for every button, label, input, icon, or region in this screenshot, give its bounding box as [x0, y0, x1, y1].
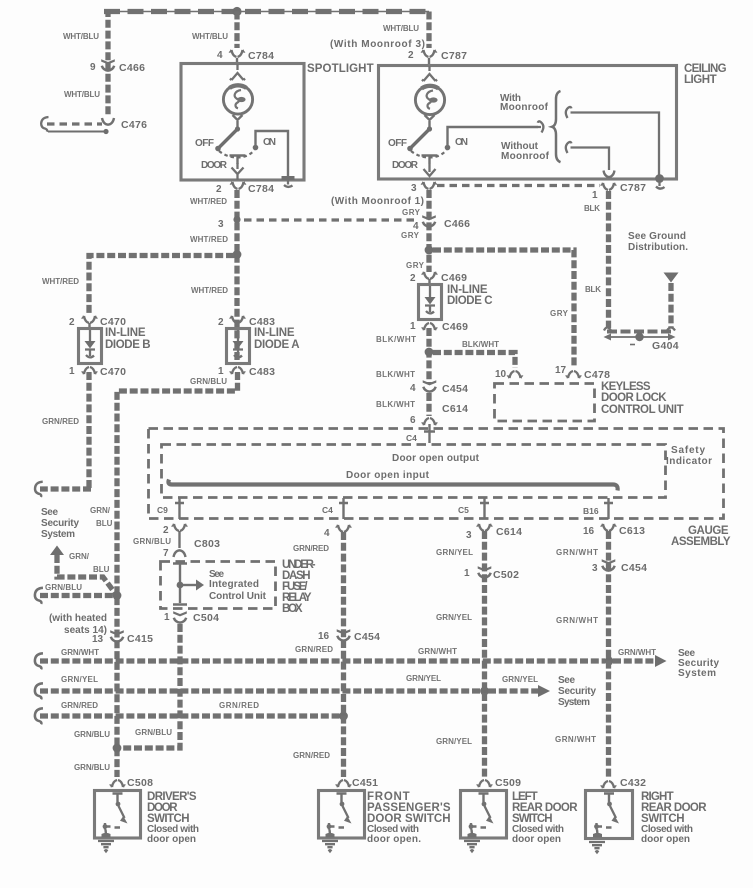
node: junction dot to diode B branch: [233, 250, 242, 259]
svg-text:GRN/RED: GRN/RED: [295, 645, 333, 654]
svg-text:DOOR: DOOR: [201, 160, 228, 171]
connector C787 pin 2: [421, 50, 436, 57]
svg-text:1: 1: [464, 568, 470, 579]
svg-text:Moonroof: Moonroof: [501, 151, 550, 162]
svg-text:WHT/BLU: WHT/BLU: [63, 32, 99, 41]
svg-text:C509: C509: [495, 777, 521, 789]
svg-text:BLK/WHT: BLK/WHT: [376, 370, 415, 379]
svg-text:DIODE B: DIODE B: [105, 339, 151, 351]
svg-text:See Ground: See Ground: [628, 231, 686, 242]
svg-text:GRN/WHT: GRN/WHT: [556, 616, 598, 625]
connector C470 pin 1: [82, 367, 97, 374]
diode B symbol: [89, 330, 91, 341]
ground (driver's door switch): [98, 841, 114, 851]
svg-text:GRN/BLU: GRN/BLU: [135, 728, 172, 737]
wire WHT/BLU ceiling drop: [426, 12, 431, 49]
node: dot on box edge (with moonroof): [655, 174, 664, 183]
svg-text:2: 2: [163, 525, 169, 536]
wire from C504 down to GRN/BLU junction: [119, 624, 180, 748]
DOOR pin chevron exit: [232, 163, 244, 180]
diode C box: [419, 285, 442, 320]
wire: arrow to security system: [488, 688, 539, 693]
svg-text:9: 9: [90, 62, 96, 73]
svg-text:16: 16: [318, 631, 330, 642]
diode C symbol: [429, 286, 431, 297]
svg-text:GRN/BLU: GRN/BLU: [45, 583, 82, 592]
svg-text:ON: ON: [263, 137, 276, 148]
svg-text:GRN/YEL: GRN/YEL: [502, 675, 538, 684]
wire GRN/RED horizontal: [40, 713, 340, 718]
svg-text:GRN/BLU: GRN/BLU: [74, 730, 110, 739]
connector C504 pin 1: [173, 611, 187, 622]
svg-text:6: 6: [410, 415, 416, 426]
svg-text:BLU: BLU: [96, 519, 113, 528]
wire GRN/RED from diode B: [86, 372, 91, 489]
wire: thin stub into gauge assembly: [424, 424, 435, 443]
connector hook below edge: [656, 182, 665, 189]
svg-text:ON: ON: [455, 137, 468, 148]
svg-text:GRN/YEL: GRN/YEL: [436, 737, 472, 746]
svg-text:WHT/BLU: WHT/BLU: [383, 24, 419, 33]
switch common: [236, 121, 238, 127]
svg-text:1: 1: [69, 366, 75, 377]
pin entry chevron: [230, 64, 245, 80]
connector C415 pin 13: [110, 630, 124, 641]
connector C787 pin 1: [601, 183, 616, 190]
svg-text:GRN/BLU: GRN/BLU: [74, 763, 110, 772]
node: junction dot on top bus: [232, 7, 241, 16]
wire BLK from C787 pin 1: [606, 191, 611, 328]
svg-text:Security: Security: [558, 686, 596, 697]
svg-text:1: 1: [164, 612, 170, 623]
connector C784 pin 2: [230, 182, 245, 189]
connector C469 pin 2: [422, 272, 437, 279]
svg-text:System: System: [678, 668, 716, 679]
wire GRN/WHT down: [606, 531, 611, 777]
connector hook at left end of C476 stub: [41, 117, 48, 132]
node: junction dot on GRN/BLU: [113, 591, 122, 600]
wire: door open input bus: [168, 480, 617, 491]
svg-text:7: 7: [163, 548, 169, 559]
driver's door switch box: [95, 791, 141, 839]
svg-text:System: System: [558, 697, 590, 708]
svg-text:C504: C504: [193, 612, 219, 624]
svg-text:GRN/WHT: GRN/WHT: [418, 647, 457, 656]
wire BLK/WHT to C614: [426, 393, 431, 416]
svg-text:DOOR LOCK: DOOR LOCK: [601, 392, 667, 404]
connector C466 pin 9: [101, 59, 115, 70]
case ground symbol at box edge: [282, 176, 295, 180]
svg-text:GRN/WHT: GRN/WHT: [556, 548, 598, 557]
svg-text:C787: C787: [620, 182, 646, 194]
connector C454 pin 4: [423, 380, 437, 391]
connector C432: [601, 781, 616, 788]
ground (right rear door switch): [589, 842, 605, 852]
svg-text:Moonroof: Moonroof: [500, 102, 549, 113]
svg-text:4: 4: [217, 50, 223, 61]
svg-text:3: 3: [411, 183, 417, 194]
svg-text:C466: C466: [119, 62, 145, 74]
svg-text:C9: C9: [157, 505, 168, 515]
svg-text:2: 2: [218, 317, 224, 328]
svg-text:Door open output: Door open output: [392, 453, 480, 464]
svg-text:GRN/WHT: GRN/WHT: [61, 648, 99, 657]
wire from security arrow: [57, 555, 115, 593]
svg-text:C784: C784: [248, 50, 274, 62]
node: BLK/WHT junction dot: [425, 348, 434, 357]
svg-text:2: 2: [408, 50, 414, 61]
wire: dashed (With Moonroof 1) branch to C466: [244, 218, 419, 221]
wire GRN/WHT long horizontal: [40, 658, 605, 663]
svg-text:C466: C466: [444, 218, 470, 230]
svg-text:3: 3: [218, 219, 224, 230]
integrated control unit box: [161, 562, 276, 609]
svg-text:C454: C454: [621, 562, 647, 574]
connector C803 pins 2/7: [172, 524, 187, 531]
bulb (ceiling light): [415, 85, 444, 114]
svg-text:GRY: GRY: [401, 231, 420, 240]
ground (left rear door switch): [464, 841, 480, 851]
svg-text:BLK/WHT: BLK/WHT: [376, 400, 415, 409]
wire GRN/BLU from diode A down-left: [117, 372, 238, 777]
svg-text:C784: C784: [248, 183, 274, 195]
svg-text:C803: C803: [194, 538, 220, 550]
svg-text:BLU: BLU: [93, 565, 110, 574]
svg-text:B16: B16: [583, 506, 599, 516]
node 3 (C466 pin 3): [233, 216, 240, 223]
svg-text:GRN/WHT: GRN/WHT: [555, 735, 596, 744]
svg-text:IN-LINE: IN-LINE: [254, 327, 295, 339]
svg-text:ASSEMBLY: ASSEMBLY: [671, 536, 731, 548]
wire: dashed (With Moonroof 1) line to C787 pin1: [437, 184, 600, 187]
svg-text:door open.: door open.: [367, 834, 421, 845]
svg-text:BLK/WHT: BLK/WHT: [462, 340, 499, 349]
svg-text:C478: C478: [584, 369, 610, 381]
wire: BLK/WHT branch to C478 pin 10: [433, 353, 515, 369]
svg-text:2: 2: [69, 317, 75, 328]
pin C4 stub: [339, 498, 348, 519]
wire WHT/BLU left drop: [105, 9, 110, 117]
svg-text:C454: C454: [442, 383, 468, 395]
svg-text:C5: C5: [458, 505, 469, 515]
svg-text:IN-LINE: IN-LINE: [105, 327, 146, 339]
svg-text:C613: C613: [619, 525, 645, 537]
wire: thin line under C476 stub: [48, 131, 105, 133]
svg-text:C415: C415: [127, 633, 153, 645]
switch arm to OFF: [412, 130, 429, 147]
svg-text:BLK/WHT: BLK/WHT: [376, 335, 416, 344]
svg-text:GRN/YEL: GRN/YEL: [61, 675, 98, 684]
front passenger's door switch box: [319, 791, 365, 839]
svg-text:DOOR: DOOR: [392, 160, 419, 171]
wire: with-moonroof option: [571, 113, 660, 177]
connector C613 pin 16: [601, 524, 616, 531]
wire to G404: [668, 283, 673, 328]
connector C509: [477, 780, 492, 787]
svg-text:SPOTLIGHT: SPOTLIGHT: [307, 63, 374, 75]
connector C614 pin 6: [422, 418, 437, 425]
svg-text:OFF: OFF: [195, 138, 214, 149]
svg-text:Security: Security: [41, 518, 79, 529]
svg-text:2: 2: [216, 184, 222, 195]
left rear door switch box: [461, 791, 507, 839]
svg-text:GRN/RED: GRN/RED: [42, 417, 79, 426]
svg-text:GRN/: GRN/: [69, 552, 90, 561]
node: junction dot on wire 1: [605, 657, 614, 666]
svg-text:WHT/RED: WHT/RED: [190, 235, 228, 244]
ground (front passenger's door switch): [322, 841, 338, 851]
svg-text:GRN/YEL: GRN/YEL: [406, 674, 441, 683]
wire: branch left to diode B: [89, 256, 234, 314]
svg-text:GRN/YEL: GRN/YEL: [436, 613, 472, 622]
wire from ON to case ground: [256, 131, 289, 176]
svg-text:1: 1: [592, 190, 598, 201]
switch common: [428, 121, 430, 127]
diode B box: [79, 329, 102, 364]
node: junction dot on wire 2: [480, 687, 489, 696]
svg-text:C4: C4: [322, 505, 333, 515]
svg-text:C614: C614: [442, 403, 468, 415]
node: junction dot (C504 branch): [113, 744, 122, 753]
svg-text:door open: door open: [512, 834, 561, 845]
svg-text:1: 1: [218, 366, 224, 377]
svg-text:WHT/BLU: WHT/BLU: [64, 90, 100, 99]
node: junction dot terminating wire 3: [339, 712, 348, 721]
connector C483 pin 1: [230, 367, 245, 374]
wire GRN/RED down: [341, 532, 346, 777]
pin C9 stub: [175, 498, 184, 519]
svg-text:17: 17: [555, 365, 567, 376]
hook at left end: [35, 482, 43, 497]
svg-text:4: 4: [410, 383, 416, 394]
svg-text:GRY: GRY: [402, 208, 421, 217]
connector C614 pin 3: [477, 524, 492, 531]
wire WHT/RED below spotlight: [234, 190, 239, 360]
svg-text:C451: C451: [352, 777, 378, 789]
svg-text:1: 1: [410, 321, 416, 332]
connector C478 pin 17: [566, 371, 581, 378]
svg-text:GRN/RED: GRN/RED: [293, 751, 330, 760]
svg-text:WHT/RED: WHT/RED: [191, 286, 228, 295]
svg-text:GRN/WHT: GRN/WHT: [618, 648, 656, 657]
pin entry chevron: [422, 66, 437, 81]
ICU internal wire: [173, 564, 187, 605]
brace for moonroof options: [552, 91, 561, 162]
svg-text:System: System: [41, 529, 75, 540]
diode A symbol: [237, 330, 239, 341]
svg-text:GRN/RED: GRN/RED: [219, 701, 259, 710]
ground G404: [607, 336, 672, 338]
bulb (spotlight): [223, 85, 252, 114]
svg-text:DIODE A: DIODE A: [254, 339, 300, 351]
svg-text:C476: C476: [121, 119, 147, 131]
diode A box: [227, 329, 250, 364]
svg-text:Safety: Safety: [671, 445, 705, 456]
wire WHT/BLU spotlight drop: [234, 12, 239, 49]
wire GRN/RED stub to security system (from diode B): [40, 486, 91, 491]
svg-text:C469: C469: [442, 321, 468, 333]
svg-text:GRN/BLU: GRN/BLU: [133, 537, 171, 546]
svg-text:GRN/RED: GRN/RED: [293, 544, 329, 553]
svg-text:C502: C502: [493, 569, 519, 581]
ceiling light box: [379, 66, 677, 180]
right rear door switch box: [586, 791, 633, 839]
pin B16 stub: [604, 498, 613, 519]
svg-text:C483: C483: [249, 366, 275, 378]
svg-text:2: 2: [410, 273, 416, 284]
connector C451: [336, 780, 351, 787]
svg-text:GRN/BLU: GRN/BLU: [190, 377, 227, 386]
svg-text:G404: G404: [652, 340, 679, 352]
svg-text:Distribution.: Distribution.: [628, 242, 688, 253]
DOOR contact: [230, 156, 246, 165]
svg-text:C614: C614: [496, 526, 522, 538]
svg-text:BOX: BOX: [282, 603, 303, 615]
wire: without-moonroof option: [571, 148, 610, 171]
svg-text:door open: door open: [641, 834, 690, 845]
svg-text:3: 3: [592, 563, 598, 574]
svg-text:C787: C787: [441, 50, 467, 62]
security system arrow (from security system): [50, 546, 64, 556]
svg-text:door open: door open: [147, 834, 196, 845]
svg-text:(With Moonroof 3): (With Moonroof 3): [330, 39, 425, 50]
svg-text:C470: C470: [100, 366, 126, 378]
svg-text:See: See: [558, 675, 575, 686]
node: GRY junction dot: [425, 246, 434, 255]
svg-text:C4: C4: [406, 433, 417, 443]
svg-text:WHT/BLU: WHT/BLU: [192, 32, 228, 41]
svg-text:(with heated: (with heated: [49, 613, 107, 624]
svg-text:Control Unit: Control Unit: [209, 591, 267, 602]
svg-text:16: 16: [583, 526, 595, 537]
connector C469 pin 1: [422, 323, 437, 330]
wire: top WHT/BLU bus: [104, 11, 429, 13]
svg-text:GRN/YEL: GRN/YEL: [436, 548, 473, 557]
wire GRN/YEL long horizontal: [40, 688, 481, 693]
connector pin 4 below gauge box: [336, 525, 351, 532]
switch arm to OFF: [220, 130, 237, 147]
svg-text:13: 13: [92, 634, 104, 645]
svg-text:CONTROL UNIT: CONTROL UNIT: [601, 404, 684, 416]
svg-text:GRN/: GRN/: [90, 506, 111, 515]
chevron below bulb: [233, 115, 243, 120]
dashed selector arc: [411, 150, 447, 158]
wire: GRY branch right to C478 pin 17: [433, 250, 574, 366]
connector C466 pin 4: [422, 215, 436, 226]
gauge assembly box: [149, 429, 724, 519]
svg-text:10: 10: [495, 369, 507, 380]
connector C508: [110, 780, 125, 787]
svg-text:C454: C454: [354, 631, 380, 643]
svg-text:LIGHT: LIGHT: [684, 74, 717, 86]
wire: lower GRN/BLU stub with hook: [40, 593, 114, 598]
connector C483 pin 2: [230, 316, 245, 323]
svg-text:See: See: [41, 507, 58, 518]
svg-text:WHT/RED: WHT/RED: [190, 197, 227, 206]
connector C470 pin 2: [82, 316, 97, 323]
connector C476: [102, 118, 114, 125]
connector C784 pin 4: [229, 50, 244, 57]
svg-text:GRN/RED: GRN/RED: [61, 701, 98, 710]
safety indicator box: [162, 445, 666, 498]
svg-text:OFF: OFF: [388, 138, 407, 149]
DOOR contact: [422, 156, 438, 165]
svg-text:WHT/RED: WHT/RED: [42, 277, 79, 286]
pin C5 stub: [480, 498, 489, 519]
svg-text:C508: C508: [127, 777, 153, 789]
svg-text:C469: C469: [441, 272, 467, 284]
svg-text:Indicator: Indicator: [666, 456, 712, 467]
chevron below bulb: [425, 115, 435, 120]
connector C502 pin 1: [478, 566, 492, 577]
connector C478 pin 10: [507, 371, 522, 378]
wire: ground bar: [604, 328, 675, 331]
ground distribution arrow: [664, 273, 679, 283]
svg-text:C432: C432: [620, 777, 646, 789]
svg-text:DIODE C: DIODE C: [447, 295, 493, 307]
wire: dashed stub from C476: [47, 122, 102, 125]
svg-text:Door open input: Door open input: [346, 470, 430, 481]
ON contact: [253, 145, 259, 151]
cup at box edge (without moonroof): [604, 171, 615, 178]
svg-text:Integrated: Integrated: [209, 579, 259, 590]
wire GRN/YEL down: [482, 531, 487, 777]
wire BLK/WHT: [426, 328, 431, 383]
wire from ON to moonroof options: [448, 127, 539, 146]
spotlight box: [181, 64, 304, 181]
svg-text:(With Moonroof 1): (With Moonroof 1): [331, 196, 424, 207]
svg-text:3: 3: [466, 530, 472, 541]
dashed selector arc: [219, 150, 255, 158]
connector C454 pin 16: [337, 629, 351, 640]
svg-text:4: 4: [324, 528, 330, 539]
ON contact: [445, 145, 451, 151]
wire into spotlight box: [236, 58, 238, 63]
svg-text:GRY: GRY: [406, 261, 425, 270]
keyless door lock control unit box: [495, 384, 595, 422]
wire GRY: [426, 190, 431, 272]
connector C787 pin 3: [424, 164, 436, 176]
connector C454 pin 3: [602, 559, 616, 570]
svg-text:GRY: GRY: [550, 309, 569, 318]
wire: arrow to security system: [613, 658, 655, 663]
hook at end of ON wire: [538, 121, 544, 132]
svg-text:BLK: BLK: [585, 285, 601, 294]
svg-text:BLK: BLK: [584, 204, 600, 213]
